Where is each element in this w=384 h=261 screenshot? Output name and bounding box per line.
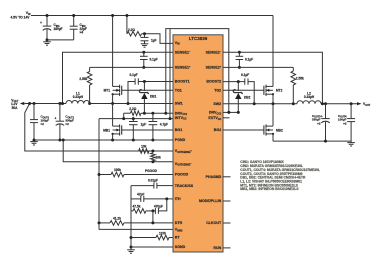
wire ground bus right xyxy=(273,140,351,142)
svg-text:10k: 10k xyxy=(156,156,162,160)
wire VOUTSENSE+ remote sense xyxy=(25,104,173,152)
svg-text:SENSE1+: SENSE1+ xyxy=(175,66,191,70)
wire VOUTSENSE- to ground bus xyxy=(63,140,173,162)
svg-text:LTC3839: LTC3839 xyxy=(189,36,208,41)
svg-text:10k: 10k xyxy=(141,144,147,148)
svg-text:47pF: 47pF xyxy=(137,192,144,196)
wire INTVCC distribution vertical xyxy=(98,119,100,230)
transistor MT2 xyxy=(266,85,273,87)
ground input caps xyxy=(46,40,48,42)
inductor L1 0.33uH xyxy=(63,103,67,105)
svg-text:BOOST2: BOOST2 xyxy=(206,80,221,84)
svg-text:100k: 100k xyxy=(114,168,121,172)
svg-text:×2: ×2 xyxy=(65,122,69,126)
svg-text:4.5V TO 14V: 4.5V TO 14V xyxy=(11,16,31,20)
svg-text:41.2k: 41.2k xyxy=(113,217,121,221)
svg-text:TG2: TG2 xyxy=(214,89,221,93)
capacitor 4.7uF DRVCC xyxy=(152,113,154,121)
wire SENSE2+ row xyxy=(223,66,293,68)
wire VRNG row xyxy=(99,228,173,230)
wire compensation ground rail xyxy=(130,186,132,250)
wire boost2 cap to SW2 xyxy=(248,82,254,104)
wire VIN top rail xyxy=(31,15,273,17)
svg-text:2.55k: 2.55k xyxy=(296,77,304,81)
wire ITH mid node to DTR xyxy=(152,211,154,223)
capacitor COUT3 330uF x2 xyxy=(325,104,327,119)
capacitor 0.1uF boost2 xyxy=(223,81,245,83)
svg-text:TG1: TG1 xyxy=(175,89,182,93)
svg-text:+: + xyxy=(55,117,57,121)
wire DRVCC2 to INTVCC link over top xyxy=(166,29,229,114)
capacitor 0.1uF sense1 filter xyxy=(142,51,145,54)
svg-text:MT1: MT1 xyxy=(104,89,111,93)
ground compensation network xyxy=(127,249,135,251)
wire MT1 source to SW1 xyxy=(112,94,114,103)
ground VIN bypass xyxy=(141,43,149,45)
wire MT2 source to SW2 xyxy=(272,94,274,103)
resistor 2.55k channel 1 xyxy=(89,67,91,71)
wire TRACK/SS row xyxy=(131,185,154,187)
resistor 2.2 ohm DRVCC filter xyxy=(123,113,125,118)
svg-text:RT: RT xyxy=(175,236,181,240)
svg-text:SENSE2−: SENSE2− xyxy=(206,50,222,54)
svg-text:MT2: MT2 xyxy=(276,89,283,93)
wire BG2 to MB2 gate xyxy=(223,129,264,131)
svg-text:PGND: PGND xyxy=(175,138,186,142)
wire input cap ground bus xyxy=(47,39,74,41)
capacitor COUT1 100uF x2 xyxy=(33,104,35,120)
wire SW1 row xyxy=(113,103,173,105)
capacitor 1uF VIN bypass xyxy=(144,34,146,38)
svg-text:MB2: MB2 xyxy=(276,128,283,132)
svg-text:DB1: DB1 xyxy=(150,95,157,99)
wire TG1 to MT1 gate xyxy=(121,89,173,91)
capacitor COUT4 100uF x2 xyxy=(350,104,352,119)
svg-text:0.33µH: 0.33µH xyxy=(304,95,315,99)
resistor 100k PGOOD pull-up xyxy=(99,174,111,176)
capacitor 470pF compensation xyxy=(154,208,156,214)
svg-text:0.1µF: 0.1µF xyxy=(241,73,249,77)
svg-text:2.2Ω: 2.2Ω xyxy=(129,107,136,111)
wire BG1 to MB1 gate xyxy=(121,129,173,131)
svg-text:SW1: SW1 xyxy=(175,102,183,106)
resistor 47.5k compensation xyxy=(131,210,133,212)
wire MB2 source to ground xyxy=(272,134,274,141)
wire MB2 drain from SW2 xyxy=(272,104,274,126)
resistor 2.55k channel 2 xyxy=(292,67,294,71)
svg-text:50A: 50A xyxy=(12,106,19,110)
resistor 10k VOUTSENSE divider xyxy=(151,150,154,153)
wire DRVCC1 row xyxy=(141,112,173,114)
svg-text:+: + xyxy=(40,21,42,25)
svg-text:BOOST1: BOOST1 xyxy=(175,80,190,84)
svg-text:ITH: ITH xyxy=(175,197,181,201)
svg-text:SENSE2+: SENSE2+ xyxy=(206,66,222,70)
svg-text:×4: ×4 xyxy=(80,31,84,35)
svg-text:+: + xyxy=(321,114,323,118)
wire CLKOUT stub xyxy=(223,222,231,224)
resistor 41.2k DTR xyxy=(99,222,110,224)
wire VOUT rail left xyxy=(25,103,63,105)
svg-text:180µF: 180µF xyxy=(54,27,63,31)
wire EXTVCC stub xyxy=(223,117,230,119)
svg-text:4.7µF: 4.7µF xyxy=(160,122,168,126)
resistor 2.2 ohm VIN filter xyxy=(126,16,128,34)
wire MT1 drain from VIN rail xyxy=(112,16,114,87)
svg-text:DB2: DB2 xyxy=(244,95,251,99)
wire SGND row xyxy=(131,246,173,248)
wire MT2 drain from VIN rail xyxy=(272,16,274,87)
svg-text:CLKOUT: CLKOUT xyxy=(206,221,222,225)
svg-text:SENSE1−: SENSE1− xyxy=(175,50,191,54)
resistor 10k VOUTSENSE+ series xyxy=(137,150,139,152)
node VOUT output label left xyxy=(20,102,25,105)
inductor L2 0.33uH xyxy=(297,101,321,104)
wire INTVCC row xyxy=(99,118,173,120)
svg-text:SW2: SW2 xyxy=(213,102,221,106)
wire PGND ground bus left xyxy=(34,139,173,141)
svg-text:MODE/PLLIN: MODE/PLLIN xyxy=(199,199,222,203)
wire PHASMD stub xyxy=(223,176,231,178)
node VOUT output label right xyxy=(357,102,362,105)
svg-text:PGOOD: PGOOD xyxy=(175,173,189,177)
transistor MB1 xyxy=(113,125,120,127)
wire TG2 to MT2 gate xyxy=(223,89,264,91)
svg-text:0.1µF: 0.1µF xyxy=(245,57,253,61)
capacitor 0.1uF sense2 filter xyxy=(238,51,241,54)
wire SW2 row xyxy=(223,103,297,105)
svg-text:2.55k: 2.55k xyxy=(79,77,87,81)
diode DB1 xyxy=(143,82,145,92)
svg-text:1µF: 1µF xyxy=(151,38,157,42)
wire MODE/PLLIN stub xyxy=(223,200,231,202)
capacitor 1uF INTVCC xyxy=(132,119,134,122)
ground output caps left xyxy=(30,141,38,143)
svg-text:RUN: RUN xyxy=(213,246,221,250)
svg-text:0.33µH: 0.33µH xyxy=(73,95,84,99)
svg-text:×2: ×2 xyxy=(343,121,347,125)
svg-text:MB1: MB1 xyxy=(103,128,110,132)
svg-text:PGOOD: PGOOD xyxy=(145,169,158,173)
svg-text:470pF: 470pF xyxy=(154,204,163,208)
svg-text:0.01µF: 0.01µF xyxy=(148,179,158,183)
svg-text:BG2: BG2 xyxy=(214,128,221,132)
svg-text:0.1µF: 0.1µF xyxy=(150,57,158,61)
svg-text:0.1µF: 0.1µF xyxy=(130,73,138,77)
wire boost1 cap to SW1 xyxy=(128,82,135,104)
wire MB1 source to PGND xyxy=(112,134,114,140)
wire SENSE1- to VOUT node xyxy=(63,52,174,103)
capacitor CIN2 22uF x4 xyxy=(73,16,75,27)
wire SENSE1+ row xyxy=(90,66,173,68)
svg-text:DTR: DTR xyxy=(175,221,183,225)
svg-text:137k: 137k xyxy=(159,231,166,235)
wire VOUT rail right xyxy=(324,103,357,105)
wire VIN filter to VIN pin xyxy=(142,34,174,44)
node SW1 junction xyxy=(88,102,91,105)
wire SENSE2- to VOUT node right xyxy=(223,52,322,103)
svg-text:1µF: 1µF xyxy=(141,122,147,126)
wire DRVCC2 row xyxy=(223,111,238,113)
IC U1 LTC3839 controller xyxy=(173,35,223,252)
svg-text:BG1: BG1 xyxy=(175,128,182,132)
transistor MB2 xyxy=(266,125,273,127)
transistor MT1 xyxy=(113,85,120,87)
wire MB1 drain from SW1 xyxy=(112,104,114,127)
capacitor 0.1uF boost1 xyxy=(138,81,173,83)
svg-text:PHASMD: PHASMD xyxy=(206,175,222,179)
svg-text:MB1, MB2: INFINEON BSC010NE2LS: MB1, MB2: INFINEON BSC010NE2LS xyxy=(240,187,299,191)
svg-text:47.5k: 47.5k xyxy=(133,204,141,208)
resistor 137k RT xyxy=(131,237,156,239)
capacitor 47pF ITH xyxy=(131,198,141,200)
wire RUN stub xyxy=(223,247,231,249)
svg-text:×2: ×2 xyxy=(317,121,321,125)
wire INTVCC pin link xyxy=(169,29,171,119)
svg-text:×2: ×2 xyxy=(41,122,45,126)
svg-text:VOUT: VOUT xyxy=(363,102,371,107)
diode DB2 xyxy=(237,82,239,91)
svg-text:2.2Ω: 2.2Ω xyxy=(128,28,135,32)
ground output caps right xyxy=(347,142,355,144)
capacitor COUT2 330uF x2 xyxy=(59,104,61,122)
svg-text:SGND: SGND xyxy=(175,245,186,249)
svg-text:TRACK/SS: TRACK/SS xyxy=(175,184,194,188)
capacitor CIN1 180uF xyxy=(46,16,48,27)
